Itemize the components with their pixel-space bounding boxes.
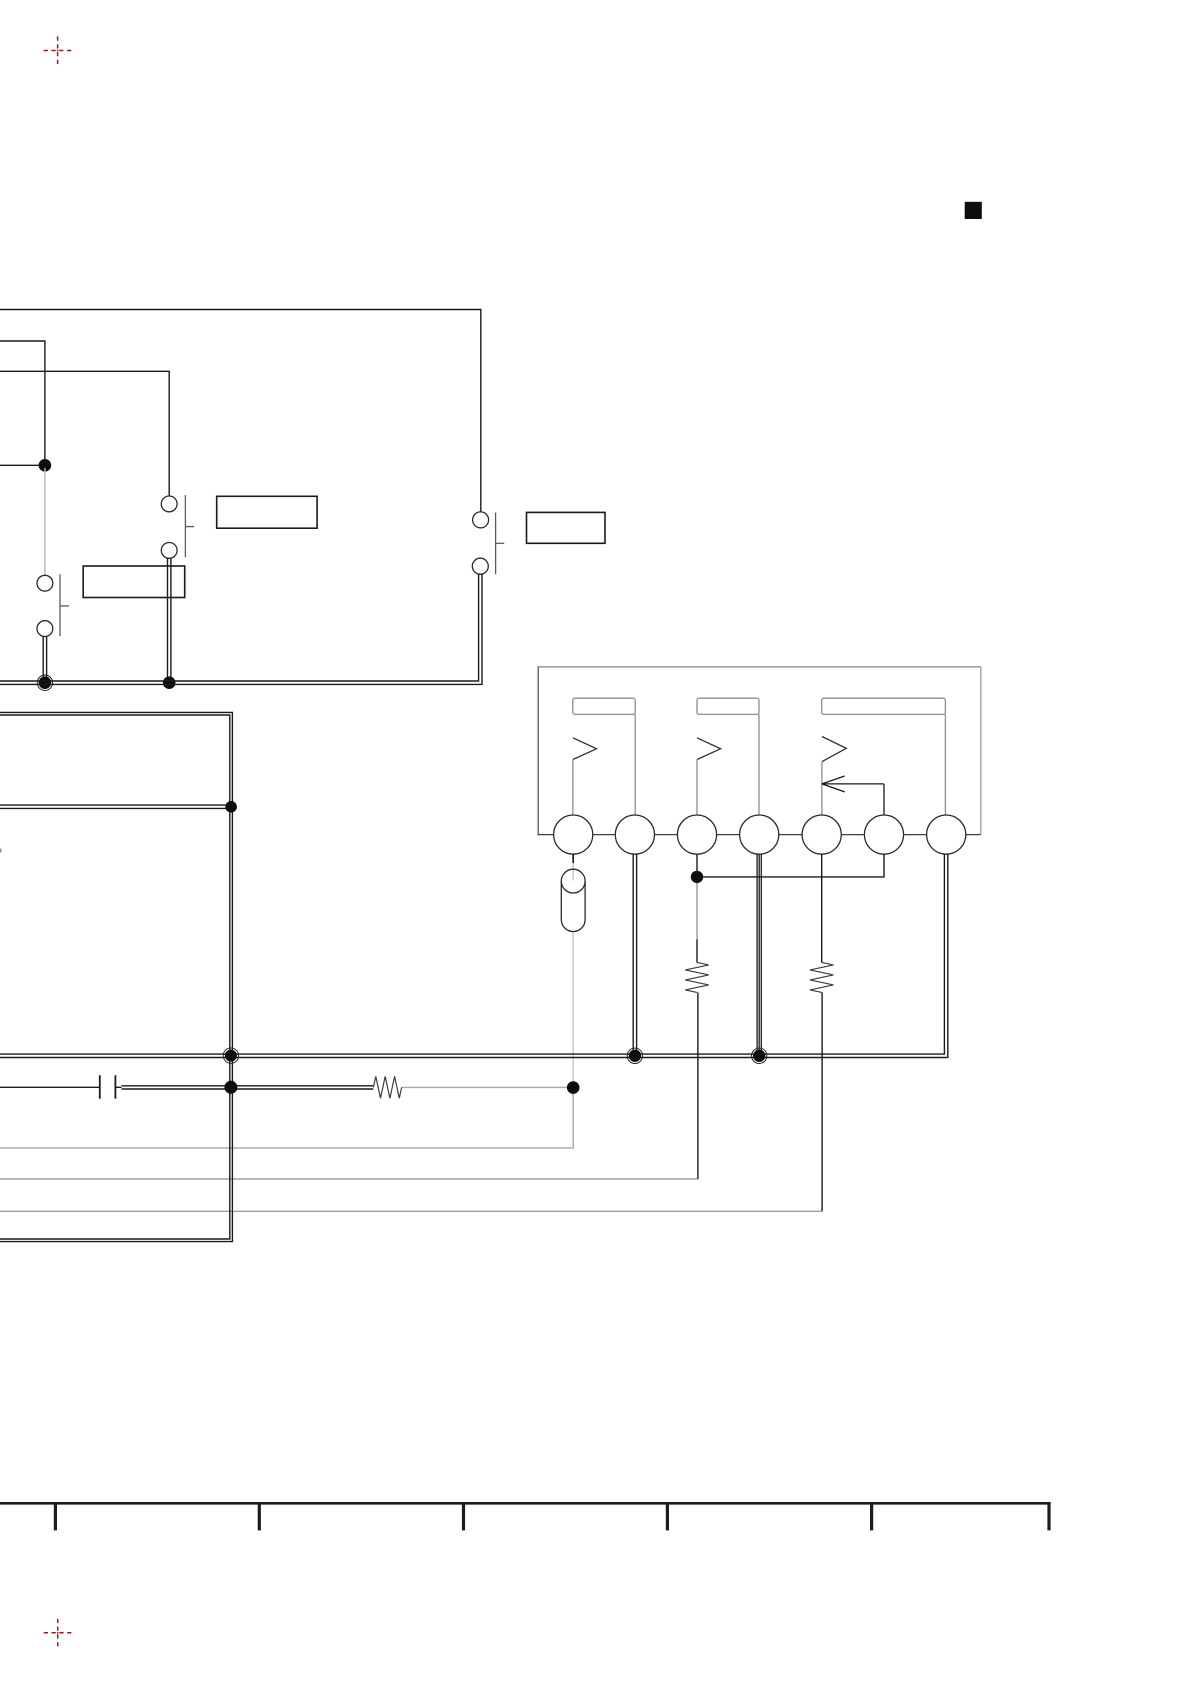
node: junction dot S1/bus: [39, 676, 52, 689]
wire (gray) from horizontal resistor to mic junction: [402, 1086, 568, 1088]
capacitor C1: [100, 1075, 116, 1099]
resistor R1 (vertical): [685, 962, 708, 992]
jack J3 body: [822, 698, 946, 714]
label box for S1: [83, 566, 185, 598]
microphone MK1 capsule: [561, 869, 585, 931]
label box for S2: [217, 496, 317, 528]
wire into page to capacitor C1: [0, 1086, 100, 1088]
pushbutton switch S1: [37, 574, 69, 636]
main box outer border: [0, 712, 232, 1241]
label box for S3: [527, 512, 606, 543]
thick wire: capacitor to resistor R3: [122, 1086, 374, 1089]
wire (gray) return line 1 from mic junction: [0, 1092, 573, 1148]
jack block outline left: [537, 667, 539, 835]
wire (gray) J2 sleeve to pin 4: [758, 714, 760, 816]
ruler tick 5: [870, 1502, 873, 1530]
node: junction dot at (45,465): [39, 459, 52, 472]
pushbutton switch S3: [472, 512, 504, 574]
pin 1: [554, 815, 593, 854]
node: junction dot box-edge/bus: [225, 1050, 237, 1062]
wire (gray) J3 contact to pin 5: [821, 762, 823, 816]
pin 7: [927, 815, 966, 854]
wire: pin 5 down to resistor R2: [821, 854, 823, 962]
wire (light) microphone line down through bus to junction: [572, 863, 574, 881]
jack block outline bottom (pin rail): [538, 834, 981, 836]
ruler tick 2: [258, 1502, 261, 1530]
jack block outline right: [980, 667, 982, 835]
node: junction dot pin3 net: [691, 871, 703, 883]
wire (gray) J1 sleeve to pin 2: [634, 714, 636, 816]
ruler tick 1: [54, 1502, 57, 1530]
wire (gray) J1 contact to pin 1: [572, 760, 574, 817]
node: junction dot rail/box edge: [225, 801, 237, 813]
ruler end tick: [1047, 1502, 1050, 1530]
wire (gray) return line 3: [0, 1210, 822, 1212]
detect switch arrow of jack J3: [822, 776, 884, 816]
wire: R2 down through bus to return line 3: [821, 992, 823, 1211]
wire (gray) J3 sleeve to pin 7: [944, 714, 946, 816]
node: junction dot pin2/bus: [629, 1050, 641, 1062]
jack block pins (circles): [554, 815, 966, 854]
wire: block right edge down to switch S3: [480, 310, 482, 513]
page marker black square: [965, 202, 982, 219]
contact of jack J1: [573, 738, 597, 760]
wire: R1 down through bus to return line 2: [697, 992, 699, 1179]
pin 6: [864, 815, 903, 854]
wire (gray) J2 contact to pin 3: [696, 760, 698, 817]
resistor R2 (vertical): [810, 962, 833, 992]
microphone MK1 stub: [572, 854, 574, 863]
resistor R3 (horizontal): [373, 1076, 401, 1098]
node: junction dot cap-line/box edge: [224, 1081, 237, 1094]
pin 5: [802, 815, 841, 854]
wire: pin3 junction to pin 6: [697, 854, 884, 877]
wire (light) from junction down to switch S1: [44, 468, 46, 576]
registration crosshair bottom-left: [44, 1619, 72, 1647]
pin 3: [677, 815, 716, 854]
main box inner border: [0, 715, 230, 1239]
node: junction dot S2/bus: [163, 676, 176, 689]
wire: pin 3 stub to junction: [696, 854, 698, 871]
wire (gray) return line 2: [0, 1178, 698, 1180]
pin 2: [615, 815, 654, 854]
contact of jack J2: [697, 738, 721, 760]
wire into page at y=341: [0, 341, 45, 459]
wire: capacitor to thick line: [115, 1086, 121, 1088]
contact of jack J3: [822, 737, 846, 762]
jack block outline top: [538, 666, 981, 668]
wire: block top edge: [0, 309, 482, 311]
pushbutton switch S2: [161, 495, 194, 558]
node: junction dot pin4/bus: [753, 1050, 765, 1062]
ruler baseline: [0, 1502, 1051, 1505]
ruler tick 3: [462, 1502, 465, 1530]
jack J2 body: [697, 698, 759, 714]
pin 4: [740, 815, 779, 854]
wire: black segment above resistor R1: [696, 940, 698, 963]
jack J1 body: [573, 698, 635, 714]
thick wire: S2 to ground bus: [168, 558, 171, 684]
registration crosshair top-left: [44, 36, 72, 64]
wire into page at y=465: [0, 464, 45, 466]
thick wire: S1 to ground bus: [43, 636, 46, 684]
stray cut-off gray mark at left edge: [0, 849, 2, 853]
wire into page at y=371: [0, 371, 169, 496]
wire (gray) segment of jack3 tip line: [696, 879, 698, 940]
thick wire: pin 2 to bus: [633, 854, 636, 1057]
node: junction dot mic net: [567, 1081, 580, 1094]
ruler tick 4: [666, 1502, 669, 1530]
internal rail (double line): [0, 804, 231, 806]
thick wire: pin 4 to bus (triple line): [757, 854, 761, 1057]
thick ground bus of switch block (double line with corner at right): [0, 574, 482, 684]
